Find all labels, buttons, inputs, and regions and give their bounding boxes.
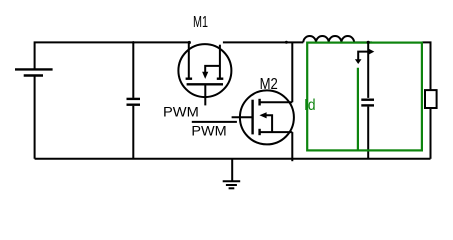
transistor M1 arrowhead xyxy=(202,72,208,79)
battery V1 xyxy=(15,69,53,75)
svg-text:Id: Id xyxy=(304,97,316,114)
current arrow down head xyxy=(355,59,362,64)
node dot near M2 drain branch xyxy=(285,41,288,44)
inductor L1 xyxy=(303,36,354,42)
transistor M2 xyxy=(232,90,294,144)
transistor M1 xyxy=(178,43,231,106)
wire top-left rail xyxy=(35,42,189,68)
node dot at M1 left lead xyxy=(188,41,191,44)
wire input capacitor branch top xyxy=(132,42,134,98)
node dot at input capacitor top xyxy=(132,41,135,44)
svg-text:PWM: PWM xyxy=(163,104,199,120)
wire output capacitor branch bottom xyxy=(367,107,369,159)
wire PWM stub (between PWM labels) xyxy=(192,121,237,123)
wire M2 drain vertical xyxy=(291,42,293,102)
ground xyxy=(223,159,241,189)
svg-text:M1: M1 xyxy=(193,14,208,31)
current arrow right head xyxy=(369,49,375,55)
capacitor C2 (output) xyxy=(361,100,374,106)
wire M2 source vertical xyxy=(291,132,293,161)
transistor M2 arrowhead xyxy=(259,112,266,118)
wire top-right corner xyxy=(422,42,431,90)
svg-text:PWM: PWM xyxy=(191,124,226,140)
node dot at output capacitor top xyxy=(367,41,370,44)
wire bottom rail xyxy=(35,158,431,160)
wire input capacitor branch bottom xyxy=(132,106,134,159)
wire battery bottom to bottom rail xyxy=(34,76,36,159)
wire output capacitor branch top xyxy=(367,42,369,98)
resistor R-load xyxy=(425,90,437,108)
wire M1 right stub to M2 drain junction xyxy=(223,41,303,43)
green inner vertical wire xyxy=(357,68,359,151)
wire after inductor to output cap junction xyxy=(354,41,372,43)
capacitor C1 (input) xyxy=(127,99,141,105)
wire right rail below resistor xyxy=(430,108,432,159)
svg-text:M2: M2 xyxy=(260,76,278,93)
current direction arrow Id xyxy=(358,52,369,60)
green probe loop xyxy=(307,43,422,151)
